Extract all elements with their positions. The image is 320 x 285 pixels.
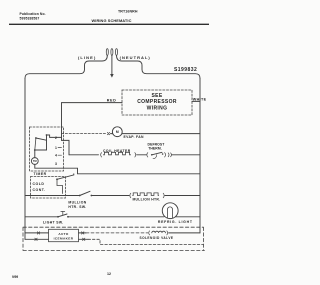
evap fan motor M1 [112,127,122,137]
svg-text:REFRIG. LIGHT: REFRIG. LIGHT [158,220,193,224]
connector ( before mullion heater [129,193,132,197]
wire solenoid to right rail [169,232,200,234]
wire timer contact down [46,135,48,150]
cold control contact [56,178,58,180]
connector X on wire B right [83,238,85,240]
timer switch blade [36,138,46,140]
mullion heater switch blade [80,191,90,195]
connector ) after solenoid [166,231,169,235]
wire mullion heater to right rail [165,195,200,197]
wire B from icemaker box [79,238,89,240]
wire timer terminal 2 to compressor feed [47,135,62,137]
wire through fan to right rail [111,133,201,135]
wire defrost thermostat to right rail [172,154,200,156]
wire pivot to motor node [35,138,36,150]
mullion heater switch contact right [91,195,93,197]
coil heater wire [69,154,99,156]
svg-text:THERM.: THERM. [148,147,162,151]
ground arrow [110,74,114,78]
icemaker return wire B left [25,238,49,240]
svg-text:WHITE: WHITE [193,97,207,101]
plug prong left [106,49,108,56]
timer contact node [46,134,48,136]
neutral cord wire (right / NEUTRAL) [117,56,201,79]
svg-text:WIRING SCHEMATIC: WIRING SCHEMATIC [92,18,132,23]
light switch wire from left rail [25,216,57,218]
svg-text:COLD: COLD [33,182,45,186]
auto icemaker box A1 [49,229,79,241]
connector X on fan wire [107,132,109,134]
cold control switch blade [57,174,74,180]
svg-text:5995338587: 5995338587 [20,16,40,20]
light switch blade [58,214,67,217]
svg-text:COMPRESSOR: COMPRESSOR [137,99,177,105]
svg-text:ICEMAKER: ICEMAKER [54,237,74,241]
defrost thermostat bimetal hook [153,155,157,159]
connector ( before solenoid [148,231,151,235]
light switch S3 contact left [57,216,59,218]
wire A from icemaker box [79,232,87,234]
label COLD CONT. [33,182,46,192]
connector ) after defrost thermostat [164,153,167,157]
icemaker supply wire A [25,232,49,234]
connector X on wire A right [82,232,84,234]
svg-text:TIMER: TIMER [34,172,47,176]
timer motor TM [31,158,38,165]
compressor box text [137,93,177,112]
svg-text:4: 4 [55,153,57,157]
defrost coil heater R1 element [103,152,130,155]
svg-text:TRT16NRH: TRT16NRH [118,9,138,13]
timer motor TM lead top [34,150,36,158]
svg-text:M: M [116,130,119,134]
timer terminal 1 stub [58,147,62,149]
wire timer motor junction [35,149,47,151]
svg-text:(NEUTRAL): (NEUTRAL) [120,55,151,60]
svg-text:(LINE): (LINE) [78,55,96,60]
defrost timer T1 box [30,127,64,171]
svg-text:LIGHT SW.: LIGHT SW. [43,220,63,224]
bulb filament [167,207,172,218]
water solenoid valve L1 coil [152,231,166,233]
connector pair on defrost wire [168,153,171,157]
left rail wire [24,78,26,239]
mullion heater R2 element [133,193,159,196]
icemaker harness enclosure (dashed) [23,227,205,250]
ground wire [111,56,113,75]
wire B dashed return run [88,239,204,244]
wire A dashed run to solenoid [86,232,148,234]
connector X on wire B left [35,238,37,240]
label DEFROST THERM. [148,143,166,151]
mullion heater switch S2 contact left [79,195,81,197]
svg-text:SOLENOID VALVE: SOLENOID VALVE [140,236,174,240]
plug prong center [111,49,113,56]
publication number text [20,12,46,20]
svg-text:MULLION HTR.: MULLION HTR. [132,197,160,201]
svg-text:3: 3 [55,162,57,166]
svg-text:9/99: 9/99 [12,275,18,279]
svg-text:S199832: S199832 [174,67,197,73]
svg-text:12: 12 [107,272,111,276]
wire RED to compressor [62,103,123,155]
compressor box U1 (SEE COMPRESSOR WIRING) [122,90,192,115]
connector X on wire A left [37,232,39,234]
mullion heater switch wire from left rail [25,195,79,197]
defrost thermostat fixed contact [162,153,164,155]
connector ) after coil heater [134,153,137,157]
svg-text:RED: RED [107,99,117,103]
svg-text:2: 2 [55,136,57,140]
svg-text:1: 1 [55,146,57,150]
wire bulb to right rail [176,216,201,218]
wire coil heater to defrost thermostat [137,154,147,156]
wire light switch to bulb [68,216,164,218]
defrost thermostat blade [152,152,162,155]
header rule [9,23,209,25]
svg-text:COIL HEATER: COIL HEATER [103,149,131,153]
svg-text:WIRING: WIRING [147,106,168,112]
light switch contact right [67,216,69,218]
line cord wire (left / LINE) [25,56,107,79]
plug prong right [116,49,118,56]
svg-text:TM: TM [33,159,37,163]
auto icemaker box text [54,232,74,241]
svg-text:MULLION: MULLION [68,201,86,205]
svg-text:CONT.: CONT. [33,188,46,192]
svg-text:EVAP. FAN: EVAP. FAN [124,135,145,139]
label MULLION HTR. SW. [68,201,86,209]
timer terminal labels 2 1 4 3 [55,136,57,166]
timer terminal 4 stub [58,154,62,156]
wire WHITE from compressor [192,100,200,102]
svg-text:HTR. SW.: HTR. SW. [68,205,86,209]
connector ( before defrost thermostat [146,153,149,157]
cold control bellows element [57,179,63,193]
connector ( before coil heater [100,153,103,157]
timer switch pivot contact [35,137,37,139]
wire switch to mullion heater [91,195,129,197]
refrigerator light DS1 bulb [162,203,178,219]
right rail wire [199,78,201,233]
defrost thermostat S1 contact [151,154,153,156]
light switch plunger [61,211,65,215]
connector ) after mullion heater [162,193,165,197]
wire to evap fan (dashed) [62,133,108,135]
wire timer motor to terminal 3 and right rail [35,164,200,173]
cold control box [31,177,66,199]
junction dot TM [34,149,36,151]
svg-text:AUTO: AUTO [58,232,69,236]
